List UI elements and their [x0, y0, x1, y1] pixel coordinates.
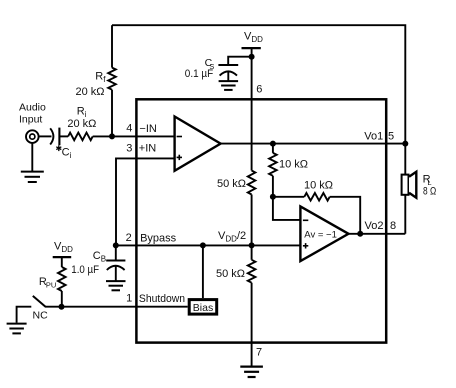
node: inverter -IN junction — [270, 194, 276, 200]
wire: jack to Ci — [39, 135, 52, 137]
wire: bypass row (pin 2 to VDD/2 to U2 plus input) — [116, 244, 300, 246]
svg-text:Input: Input — [19, 113, 42, 125]
switch (shutdown control) lever — [45, 306, 62, 308]
power VDD (top) — [242, 47, 261, 49]
wire: feedback resistor to Vo2 node — [330, 197, 361, 234]
capacitor Ci (input coupling) — [50, 128, 53, 144]
wire: shutdown (pin 1) row — [62, 306, 188, 308]
op-amp U1 (first amplifier) — [175, 117, 221, 171]
svg-text:2: 2 — [126, 232, 132, 244]
resistor 50k (upper, VDD to VDD/2) — [248, 171, 256, 195]
capacitor CS (supply bypass) — [228, 57, 251, 65]
wire: NC contact stub — [17, 307, 32, 323]
ground at input jack — [31, 143, 33, 172]
op-amp U2 (inverting, Av=-1) — [300, 206, 348, 261]
svg-text:50 kΩ: 50 kΩ — [216, 268, 245, 280]
node: Rf/Ri/-IN junction — [109, 133, 115, 139]
wire: VDD/2 to bias box — [202, 245, 204, 298]
wire: VDD bar to node — [251, 48, 253, 57]
wire: Ci to Ri — [59, 135, 68, 137]
svg-text:20 kΩ: 20 kΩ — [67, 118, 96, 130]
wire: pin 7 to ground — [251, 343, 253, 367]
wire: VDD node into pin 6 and divider — [251, 57, 253, 171]
audio input jack J1 — [26, 130, 39, 143]
svg-text:4: 4 — [126, 123, 132, 135]
svg-text:Bias: Bias — [193, 302, 213, 314]
wire: Ri to -IN (pin 4) into op-amp U1 — [93, 135, 175, 137]
bias block — [189, 300, 217, 315]
node: Vo1 / 10k junction — [270, 141, 276, 147]
capacitor CB (bypass) — [115, 245, 117, 260]
svg-text:5: 5 — [388, 131, 394, 143]
ground at NC switch — [7, 323, 27, 325]
svg-text:8: 8 — [390, 220, 396, 232]
svg-text:6: 6 — [256, 84, 262, 96]
wire: Vo1 node down to speaker, speaker to Vo2 corner — [404, 144, 406, 234]
resistor Rf 20k — [111, 25, 113, 67]
svg-text:10 kΩ: 10 kΩ — [304, 179, 333, 191]
svg-text:1: 1 — [126, 293, 132, 305]
ground at CB — [106, 280, 126, 282]
resistor 10k (Vo1 to inverter input) — [272, 144, 274, 153]
svg-text:Vo2: Vo2 — [365, 220, 384, 232]
resistor 10k (feedback around U2) — [304, 193, 329, 201]
wire: +IN (pin 3) to bypass node — [116, 158, 175, 245]
svg-text:50 kΩ: 50 kΩ — [217, 178, 246, 190]
svg-text:0.1 µF: 0.1 µF — [185, 68, 214, 80]
svg-text:NC: NC — [33, 309, 49, 321]
node: bias branch junction — [200, 242, 206, 248]
svg-text:Av = −1: Av = −1 — [304, 229, 337, 240]
power VDD (left, pull-up) — [53, 256, 71, 258]
svg-text:3: 3 — [126, 142, 132, 154]
svg-text:7: 7 — [256, 346, 262, 358]
ground at pin 7 — [240, 366, 263, 368]
svg-text:Shutdown: Shutdown — [139, 293, 185, 305]
svg-text:Bypass: Bypass — [140, 232, 177, 244]
label *Ci — [58, 145, 60, 151]
node: VDD/2 divider junction — [249, 242, 255, 248]
svg-text:10 kΩ: 10 kΩ — [279, 158, 308, 170]
wire: U1 output Vo1 to pin 5 and node — [221, 143, 406, 145]
svg-text:−IN: −IN — [139, 123, 156, 135]
node: CB bypass junction — [113, 242, 119, 248]
svg-text:Vo1: Vo1 — [364, 131, 383, 143]
IC boundary box — [136, 99, 386, 342]
resistor RPU pull-up — [61, 257, 63, 267]
svg-text:Audio: Audio — [19, 101, 46, 113]
svg-text:+IN: +IN — [139, 143, 156, 155]
node Vo2 output — [357, 231, 363, 237]
resistor 50k (lower, VDD/2 to GND) — [251, 245, 253, 259]
wire: U2 output Vo2 to pin 8 and speaker — [349, 233, 406, 235]
svg-text:20 kΩ: 20 kΩ — [75, 86, 104, 98]
node: RPU / switch junction — [59, 304, 65, 310]
svg-text:1.0 µF: 1.0 µF — [71, 264, 99, 276]
node Vo1 external — [402, 141, 408, 147]
svg-text:8 Ω: 8 Ω — [423, 186, 436, 198]
wire: junction down to U2 minus input — [273, 197, 301, 220]
resistor Ri 20k — [68, 133, 93, 141]
node VDD/CS junction — [249, 54, 255, 60]
ground at CS — [219, 80, 239, 82]
wire: feedback from Rf top to Vo1 node — [112, 25, 405, 143]
speaker RL — [402, 175, 409, 195]
